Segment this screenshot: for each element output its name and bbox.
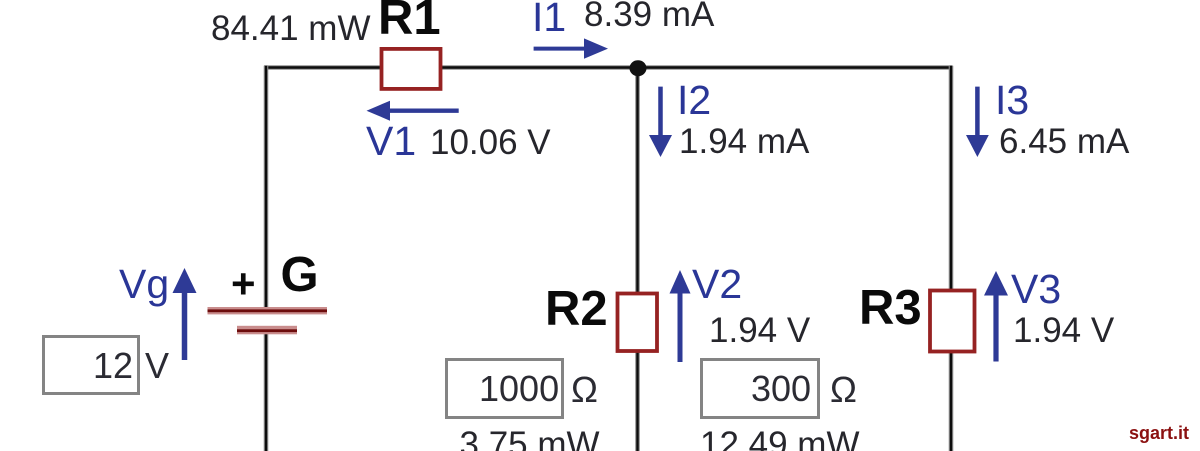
arrow I3 down <box>966 87 989 157</box>
wire left vertical lower <box>264 330 269 451</box>
input Vg value 12 <box>93 348 133 384</box>
label I3 value 6.45 mA <box>999 124 1129 159</box>
battery G plus plate <box>208 307 328 314</box>
label V1 <box>366 121 416 162</box>
input box R2 value <box>447 360 563 418</box>
battery G minus plate <box>237 326 297 335</box>
wire top horizontal <box>264 65 953 70</box>
label P2 3.75 mW <box>460 427 600 451</box>
arrow I2 down <box>649 87 672 157</box>
label I1 value 8.39 mA <box>584 0 714 32</box>
label P1 84.41 mW <box>211 11 371 46</box>
label G <box>281 251 319 300</box>
wire right vertical <box>949 66 954 451</box>
label I2 value 1.94 mA <box>679 124 809 159</box>
input R3 value 300 <box>751 371 811 407</box>
node junction dot <box>630 60 647 76</box>
wire middle vertical <box>635 66 640 451</box>
arrow I1 right <box>534 38 608 58</box>
arrow V3 up <box>984 271 1008 362</box>
input R2 value 1000 <box>479 371 559 407</box>
resistor R2 body <box>618 294 658 352</box>
input box Vg value <box>44 337 139 394</box>
arrow Vg up <box>173 268 197 360</box>
label I2 <box>677 80 711 121</box>
resistor R1 body <box>382 49 441 89</box>
unit V for Vg <box>145 348 169 384</box>
label V2 <box>692 264 742 305</box>
label V2 value 1.94 V <box>709 313 810 348</box>
battery plus sign <box>231 263 256 305</box>
label V3 <box>1011 269 1061 310</box>
unit ohm for R3 <box>830 372 857 408</box>
label P3 12.49 mW <box>700 427 860 451</box>
wire left vertical upper <box>264 66 269 311</box>
watermark sgart.it <box>1129 424 1189 442</box>
label Vg <box>119 264 169 305</box>
label R2 <box>545 285 608 334</box>
arrow V1 left <box>367 101 459 121</box>
arrow V2 up <box>670 270 691 362</box>
label I1 <box>532 0 566 38</box>
unit ohm for R2 <box>571 372 598 408</box>
label R3 <box>859 284 922 333</box>
input box R3 value <box>702 360 819 418</box>
resistor R3 body <box>930 291 975 352</box>
label R1 <box>378 0 441 43</box>
label I3 <box>995 80 1029 121</box>
label V3 value 1.94 V <box>1013 313 1114 348</box>
label V1 value 10.06 V <box>430 125 551 160</box>
